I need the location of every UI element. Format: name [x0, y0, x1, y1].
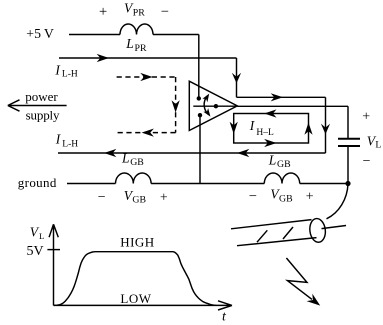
svg-text:L: L	[375, 140, 381, 151]
arrow I_L-H right	[97, 54, 109, 62]
arrow lightning bolt	[286, 258, 312, 299]
inductor LPR	[120, 24, 153, 34]
wire output to load	[237, 106, 348, 138]
wire driver mid line	[193, 105, 237, 107]
graph 5V tick	[47, 249, 60, 251]
svg-text:+: +	[99, 4, 107, 20]
graph y axis	[49, 224, 58, 305]
svg-text:+: +	[362, 109, 370, 124]
svg-text:I: I	[54, 63, 61, 78]
inductor LGB left	[116, 173, 152, 184]
svg-text:supply: supply	[26, 108, 60, 123]
arrow power supply	[8, 100, 67, 111]
capacitor CL plates	[338, 139, 360, 146]
svg-text:L-H: L-H	[62, 139, 78, 149]
svg-text:L: L	[268, 152, 277, 167]
svg-text:ground: ground	[18, 175, 57, 190]
arrow return left 2	[104, 149, 116, 157]
svg-text:PR: PR	[133, 7, 145, 18]
svg-text:−: −	[363, 154, 371, 169]
coax hatch slash 2	[283, 227, 293, 239]
wire I_L-H return line	[58, 152, 326, 154]
coax hatch slash 1	[257, 230, 267, 242]
arrow return left 1	[237, 149, 249, 157]
svg-text:L: L	[39, 231, 44, 241]
svg-text:+5 V: +5 V	[26, 26, 54, 41]
graph x axis	[54, 301, 233, 310]
arrow rect right up	[304, 123, 312, 135]
inductor LGB right	[264, 173, 299, 184]
svg-text:GB: GB	[277, 159, 291, 170]
node mid dot	[214, 104, 218, 108]
svg-text:t: t	[222, 310, 227, 325]
wire I_L-H top annotation line	[59, 58, 326, 97]
svg-text:H–L: H–L	[256, 128, 274, 138]
node junction dot	[345, 181, 350, 186]
coax center pin	[322, 226, 347, 229]
wire dashed feedback loop	[117, 77, 176, 133]
arrow curved switch inside driver	[204, 96, 208, 115]
svg-text:GB: GB	[279, 193, 293, 204]
svg-text:−: −	[98, 190, 106, 205]
arrow down chevron on x=236.5	[232, 73, 241, 84]
svg-text:+: +	[306, 190, 314, 205]
arrow dashed down	[172, 100, 180, 112]
arrow right at y=97.3	[271, 93, 283, 101]
wire driver output vertical	[199, 115, 201, 183]
svg-text:5V: 5V	[27, 244, 44, 259]
svg-text:+: +	[160, 189, 168, 204]
svg-text:PR: PR	[135, 43, 147, 54]
svg-text:GB: GB	[132, 195, 146, 206]
svg-text:LOW: LOW	[120, 291, 151, 306]
coax end ellipse	[309, 218, 327, 243]
wire +5V rail	[69, 34, 199, 36]
wire coax feed curve	[327, 184, 349, 219]
wire cap bottom lead	[347, 147, 349, 184]
wire I_H-L annotation rectangle	[234, 114, 309, 144]
node bottom dot	[198, 113, 202, 117]
op-amp U1 driver triangle	[189, 81, 237, 130]
svg-text:L: L	[121, 150, 130, 165]
wire I_L-H right vertical down	[325, 97, 327, 153]
svg-text:power: power	[25, 89, 58, 104]
ground wire	[67, 183, 348, 185]
svg-text:−: −	[249, 189, 257, 205]
arrow down chevron on x=325.5	[321, 124, 330, 135]
arrow rect left down	[230, 122, 238, 134]
svg-text:I: I	[55, 132, 62, 147]
arrow dashed left	[142, 129, 154, 137]
svg-text:L-H: L-H	[62, 70, 78, 80]
arrow dashed right	[140, 73, 152, 81]
svg-text:GB: GB	[130, 157, 144, 168]
arrow rect top left	[264, 109, 276, 117]
svg-text:I: I	[249, 118, 256, 133]
svg-text:L: L	[125, 36, 134, 51]
coax cable body	[231, 220, 317, 246]
node top input dot	[197, 96, 201, 100]
svg-text:−: −	[161, 4, 169, 20]
svg-text:HIGH: HIGH	[120, 234, 155, 249]
wire driver top input vertical	[198, 35, 200, 99]
arrow rect bottom right	[264, 139, 276, 147]
graph pulse curve	[54, 252, 216, 306]
